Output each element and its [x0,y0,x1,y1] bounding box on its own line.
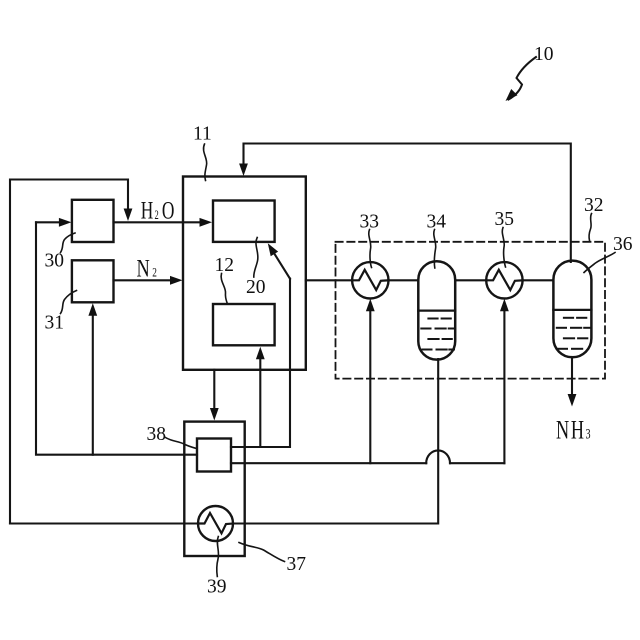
label 31 [45,291,77,334]
wire NH3 outlet [568,357,577,407]
box 38 [197,439,231,472]
box 30 [72,200,114,242]
label 37 [239,543,306,576]
label 34 [427,212,447,269]
svg-text:37: 37 [287,554,307,575]
svg-text:36: 36 [613,234,633,255]
wire branch up to box 31 [88,303,97,455]
dashed box 32 [336,242,606,379]
wire N2 feed (box 31 to box 11) [114,276,183,285]
svg-text:11: 11 [193,124,212,145]
label 12 [215,255,235,304]
label 32 [584,195,604,241]
wire HX 33 to vessel 34 [389,279,419,281]
wire feed into box 30 [36,218,71,227]
svg-text:12: 12 [215,255,235,276]
label 39 [207,537,227,598]
svg-text:32: 32 [584,195,604,216]
label 20 [246,238,266,299]
heat exchanger 35 [486,262,522,298]
box 31 [72,260,114,302]
svg-text:39: 39 [207,577,227,598]
inner box 12 [213,304,275,345]
wire box 38 right lower to HX 33 and HX 35 [231,299,509,463]
svg-text:34: 34 [427,212,447,233]
wire main line box 11 to HX 33 [306,279,352,281]
label 30 [45,233,76,272]
separator vessel 36 [553,261,591,358]
wire left top elbow with down arrow into H2O line [10,180,132,524]
label 10 [502,44,553,104]
box 11 [183,177,306,370]
svg-text:38: 38 [147,424,167,445]
wire bottom long liquid return (vessel 34 to HX 39 to left riser) [10,359,438,524]
label 35 [495,209,515,267]
svg-text:31: 31 [45,313,65,334]
separator vessel 34 [418,261,455,359]
wire H2O feed (box 30 to inner box 20) [114,218,213,227]
label 11 [193,124,212,181]
svg-text:10: 10 [534,44,554,65]
heat exchanger 39 [198,506,233,541]
svg-text:20: 20 [246,277,266,298]
label 38 [147,424,197,449]
wire HX 35 to vessel 36 [523,279,554,281]
wire recycle top (box 11 top to vessel 36 top) [239,144,571,263]
label 36 [584,234,633,273]
wire box 11 down to box 37 [210,370,219,421]
svg-text:30: 30 [45,251,65,272]
svg-text:NH3: NH3 [556,415,591,444]
label 33 [360,212,380,268]
wire vessel 34 to HX 35 [455,279,486,281]
box 37 [184,422,244,556]
svg-text:35: 35 [495,209,515,230]
svg-text:H2O: H2O [141,196,175,224]
wire box 38 to box 30 / box 31 [36,222,197,454]
heat exchanger 33 [352,262,388,298]
svg-text:N2: N2 [137,254,158,283]
wire box 38 right upper to box 11 internals [231,241,290,447]
reactor inner box 20 [213,201,275,242]
